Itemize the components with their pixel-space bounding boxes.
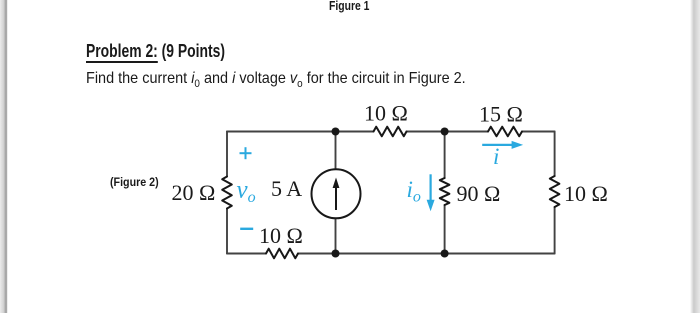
svg-text:10 Ω: 10 Ω <box>364 100 408 125</box>
resistor 10-ohm (bottom horizontal) <box>266 249 298 259</box>
current source arrow <box>333 178 340 211</box>
svg-text:5 A: 5 A <box>271 176 302 201</box>
resistor 20-ohm (left vertical) <box>222 177 232 209</box>
resistor 90-ohm (middle vertical) <box>440 178 450 205</box>
svg-text:10 Ω: 10 Ω <box>259 223 303 248</box>
plus sign of v_o <box>240 147 252 159</box>
problem statement line <box>86 71 466 90</box>
right page-edge shadow <box>690 0 700 313</box>
node D (bottom, 90-ohm branch) <box>441 250 449 258</box>
svg-text:15 Ω: 15 Ω <box>479 101 523 126</box>
left page-edge shadow <box>0 0 8 313</box>
wire right branch upper <box>554 132 556 177</box>
wire top-middle segment <box>407 131 489 133</box>
resistor 10-ohm (right vertical) <box>550 176 560 207</box>
wire top-right segment <box>522 131 555 133</box>
svg-text:vo: vo <box>237 177 256 207</box>
heading Problem 2: (9 Points) <box>86 42 225 60</box>
minus sign of v_o <box>240 228 253 230</box>
node B (top, 90-ohm branch) <box>441 128 449 136</box>
svg-text:io: io <box>407 177 421 206</box>
svg-text:10 Ω: 10 Ω <box>564 181 608 206</box>
arrow i (rightward) <box>482 141 523 149</box>
svg-text:90 Ω: 90 Ω <box>457 181 501 206</box>
current source 5A circle <box>312 169 361 218</box>
node A (top, current source branch) <box>332 128 340 136</box>
wire left branch lower <box>226 209 228 254</box>
wire current-source branch upper <box>335 132 337 170</box>
label (Figure 2) <box>110 176 159 188</box>
wire left branch upper <box>226 132 228 177</box>
arrow i_o (downward) <box>427 174 435 211</box>
wire bottom-middle segment <box>298 253 445 255</box>
caption Figure 1 <box>329 0 369 12</box>
wire current-source branch lower <box>335 218 337 253</box>
node C (bottom, current source branch) <box>332 250 340 258</box>
wire top-left segment <box>227 131 374 133</box>
wire bottom-left segment <box>227 253 266 255</box>
resistor 15-ohm (top-right horizontal) <box>488 127 522 137</box>
resistor 10-ohm (top horizontal) <box>374 127 407 137</box>
svg-text:i: i <box>493 144 499 169</box>
wire 90-ohm branch upper <box>444 132 446 179</box>
wire 90-ohm branch lower <box>444 205 446 254</box>
svg-text:20 Ω: 20 Ω <box>172 180 216 205</box>
wire right branch lower <box>554 207 556 254</box>
wire bottom-right segment <box>445 253 555 255</box>
